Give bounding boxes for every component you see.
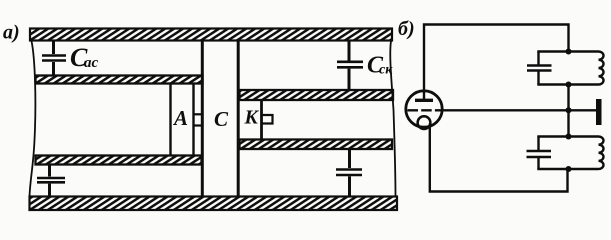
terminal plate (blocking capacitor plate) bbox=[596, 99, 602, 125]
svg-text:а): а) bbox=[3, 22, 20, 44]
wall: outer conductor bottom (hatched) bbox=[30, 197, 398, 211]
wire: cathode return bbox=[430, 124, 568, 192]
break line left bbox=[30, 41, 36, 197]
break line right bbox=[390, 41, 395, 197]
tank 2: inductor L2 bbox=[599, 137, 604, 169]
cathode electrode rail bbox=[260, 100, 263, 141]
node: tank2 top bbox=[566, 134, 572, 140]
cathode box bbox=[263, 115, 273, 124]
svg-text:б): б) bbox=[398, 18, 415, 40]
tank 1: capacitor bbox=[527, 52, 552, 85]
tank 2: capacitor bbox=[527, 137, 552, 170]
capacitor Cac bbox=[42, 40, 66, 76]
svg-text:ск: ск bbox=[379, 63, 393, 78]
anode electrode rails bbox=[171, 84, 194, 156]
anode plunger (short rect to pillar) bbox=[194, 114, 202, 125]
label Cac bbox=[70, 43, 99, 72]
wall: cathode-line inner conductor top (hatched) bbox=[240, 90, 394, 100]
wire: link column between tanks bbox=[567, 85, 569, 137]
wire: anode lead (top loop) bbox=[424, 25, 569, 101]
tube V (triode) bbox=[406, 91, 442, 129]
capacitor lower-left bbox=[37, 164, 65, 197]
wall: anode-line inner conductor top (hatched) bbox=[36, 76, 203, 84]
svg-text:A: A bbox=[172, 106, 188, 130]
tank 1: inductor L1 bbox=[599, 52, 604, 85]
wall: outer conductor top (hatched) bbox=[30, 29, 392, 41]
grid column C (pillar) bbox=[202, 41, 238, 197]
wall: anode-line inner conductor bottom (hatched) bbox=[36, 156, 202, 165]
tank 1: rails bbox=[537, 52, 598, 85]
node: tank2 bottom bbox=[566, 166, 572, 172]
node: grid junction bbox=[566, 107, 572, 113]
svg-text:K: K bbox=[244, 107, 260, 129]
svg-text:ас: ас bbox=[84, 55, 99, 71]
wire: grid lead bbox=[442, 109, 597, 111]
capacitor lower-right bbox=[336, 149, 362, 198]
capacitor Cск bbox=[337, 40, 363, 91]
node: tank1 top bbox=[566, 49, 572, 55]
node: tank1 bottom bbox=[566, 82, 572, 88]
label Cск bbox=[367, 53, 393, 79]
tank 2: rails bbox=[537, 137, 598, 170]
svg-text:C: C bbox=[214, 107, 229, 131]
wall: cathode-line inner conductor bottom (hatched) bbox=[240, 140, 393, 150]
